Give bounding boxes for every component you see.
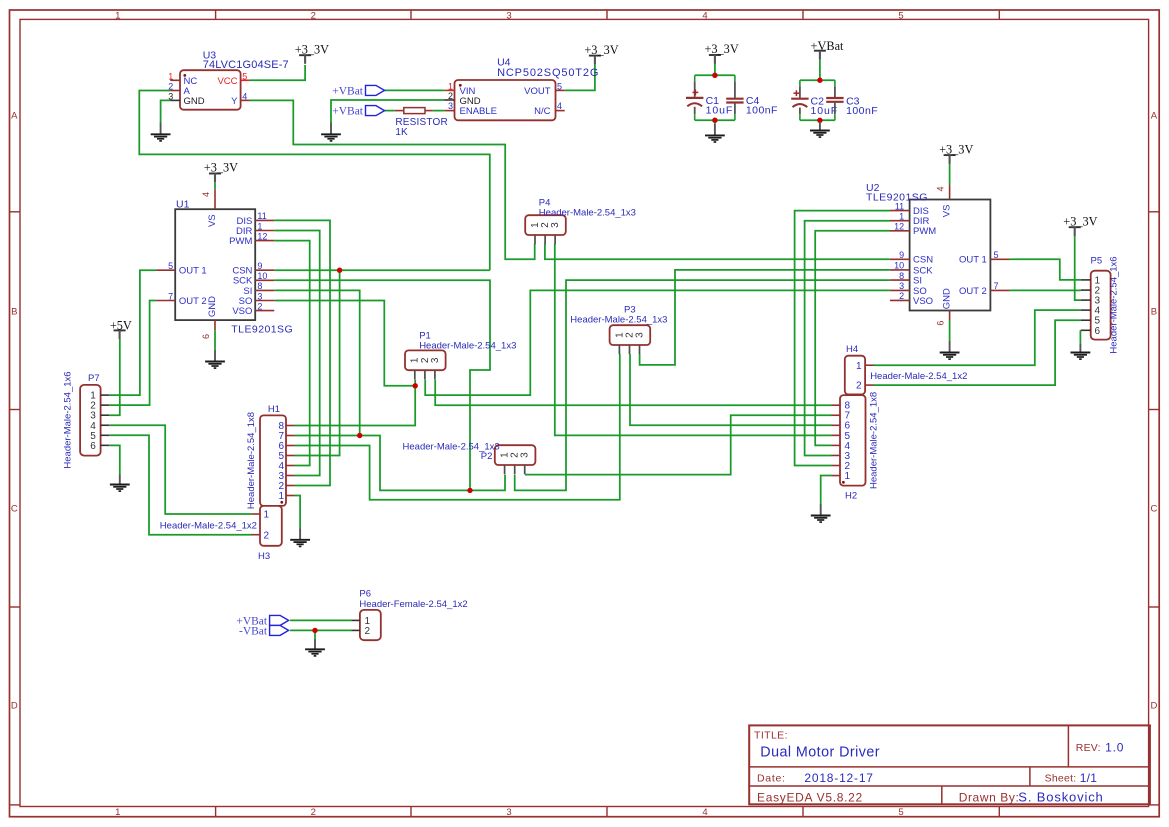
- svg-text:3: 3: [506, 807, 511, 818]
- H2 pin 7 stub and number: [832, 414, 841, 416]
- svg-text:3: 3: [257, 291, 262, 301]
- svg-text:6: 6: [201, 334, 211, 339]
- svg-text:2: 2: [856, 381, 862, 392]
- svg-text:Sheet:: Sheet:: [1045, 773, 1077, 785]
- wire U1.VS supply: [214, 182, 216, 189]
- U1 pin 11 (DIS) stub: [255, 219, 274, 221]
- svg-text:VSO: VSO: [913, 296, 933, 307]
- svg-text:1: 1: [899, 212, 904, 222]
- wire U1.SO to P1 pin1: [274, 301, 415, 386]
- H2 pin 4 stub and number: [832, 444, 841, 446]
- svg-text:12: 12: [894, 222, 904, 232]
- header P4 body: [525, 215, 566, 235]
- wire +VBat flag to P6 pin1: [290, 619, 351, 621]
- wire H1 pin8 to P1 pin1: [295, 380, 416, 426]
- wire P1 pin3 to H2 pin8: [435, 380, 831, 406]
- svg-text:S. Boskovich: S. Boskovich: [1018, 790, 1103, 805]
- svg-text:Header-Male-2.54_1x6: Header-Male-2.54_1x6: [62, 371, 73, 468]
- svg-text:4: 4: [201, 192, 211, 197]
- wire C2/C3 rails: [800, 79, 835, 81]
- wire U2.OUT2 to P5 pin2: [1010, 289, 1081, 291]
- svg-text:10: 10: [257, 271, 267, 281]
- power +VBat at C2: [811, 39, 844, 59]
- P5 pin 2 stub and number: [1081, 289, 1091, 291]
- title block: [749, 725, 1150, 804]
- svg-text:C: C: [1150, 504, 1157, 515]
- U2 pin 5 (OUT 1) stub: [990, 258, 1009, 260]
- svg-text:3: 3: [448, 101, 453, 111]
- svg-text:5: 5: [994, 250, 999, 260]
- header P3 Header-Male-2.54_1x3: [610, 325, 651, 354]
- H1 pin 7 stub and number: [286, 435, 295, 437]
- svg-text:1: 1: [257, 221, 262, 231]
- wire U1.OUT1 to P7 pin1: [109, 270, 156, 395]
- svg-text:6: 6: [90, 441, 96, 452]
- ground at U3 pin3: [151, 123, 171, 141]
- svg-text:4: 4: [702, 11, 707, 22]
- svg-text:+VBat: +VBat: [332, 106, 364, 118]
- wire U1.OUT2 to P7 pin2: [109, 301, 156, 406]
- P4 pin 2 stub and number: [544, 235, 546, 244]
- header P2 body: [495, 445, 536, 465]
- H1 pin 1 stub and number: [286, 495, 295, 497]
- svg-text:+3_3V: +3_3V: [584, 43, 618, 57]
- svg-text:GND: GND: [184, 96, 205, 107]
- svg-text:Header-Male-2.54_1x3: Header-Male-2.54_1x3: [419, 341, 516, 352]
- svg-text:Date:: Date:: [757, 773, 786, 785]
- svg-text:OUT 1: OUT 1: [179, 266, 207, 277]
- svg-text:Header-Male-2.54_1x8: Header-Male-2.54_1x8: [869, 392, 880, 489]
- svg-text:Header-Male-2.54_1x3: Header-Male-2.54_1x3: [539, 207, 636, 218]
- svg-text:PWM: PWM: [913, 226, 936, 237]
- svg-text:4: 4: [702, 807, 707, 818]
- svg-text:10uF: 10uF: [706, 105, 734, 117]
- junction dot SI / H1 pin7: [357, 433, 362, 438]
- wire U3.VCC to +3_3V: [250, 65, 306, 80]
- H1 pin 5 stub and number: [286, 455, 295, 457]
- wire +3_3V to P5 pin3: [1075, 235, 1081, 300]
- U2 pin 10 (SCK) stub: [890, 269, 910, 271]
- header H1 Header-Male-2.54_1x8: [246, 404, 295, 509]
- H2 pin 2 stub and number: [832, 465, 841, 467]
- header H3 Header-Male-2.54_1x2: [160, 506, 282, 562]
- svg-text:VSO: VSO: [232, 306, 252, 317]
- ground at U4.GND: [321, 123, 341, 141]
- header P3 body: [610, 325, 651, 345]
- svg-text:2: 2: [264, 530, 270, 541]
- P2 pin 3 stub and number: [524, 465, 526, 474]
- wire P5 pin5 to H4 pin2: [874, 320, 1081, 385]
- P3 pin 1 stub and number: [618, 345, 620, 354]
- H1 pin 4 stub and number: [286, 465, 295, 467]
- H2 pin 1 stub and number: [832, 475, 841, 477]
- H2 pin 5 stub and number: [832, 434, 841, 436]
- wire P6 pin2 branch to ground: [314, 630, 316, 639]
- wire H1 pin1 to ground: [295, 496, 301, 529]
- capacitor C3 100nF: [826, 80, 878, 120]
- svg-text:74LVC1G04SE-7: 74LVC1G04SE-7: [203, 59, 289, 71]
- P7 pin 1 stub and number: [101, 394, 110, 396]
- ground at P5 pin6: [1071, 344, 1091, 359]
- U2 pin 12 (PWM) stub: [890, 230, 910, 232]
- svg-text:7: 7: [168, 291, 173, 301]
- U1 pin 2 (VSO) stub: [255, 310, 274, 312]
- power +3_3V at P5 pin3: [1063, 214, 1097, 235]
- svg-text:1: 1: [264, 510, 270, 521]
- junction dots C2 rail: [817, 78, 822, 83]
- wire U1.SI to H1 pin7: [274, 290, 359, 435]
- header P1 Header-Male-2.54_1x3: [405, 350, 446, 379]
- inverter U3 74LVC1G04SE-7: [168, 50, 289, 110]
- U1 pin 5 (OUT 1) stub: [156, 269, 175, 271]
- header P6 Header-Female-2.54_1x2: [351, 589, 467, 641]
- header P5 Header-Male-2.54_1x6: [1081, 256, 1120, 354]
- wire P7 pin4 to H3 pin1: [109, 425, 251, 514]
- svg-text:1: 1: [115, 807, 120, 818]
- wire P7 pin6 to ground: [109, 445, 120, 474]
- junction dot CSN branch: [337, 268, 342, 273]
- svg-text:+5V: +5V: [110, 319, 132, 333]
- capacitor C4 100nF: [726, 75, 778, 120]
- capacitor C1 10uF: [686, 75, 733, 120]
- svg-text:B: B: [1151, 307, 1157, 318]
- header P1 body: [405, 350, 446, 370]
- svg-text:OUT 2: OUT 2: [959, 286, 987, 297]
- svg-text:Header-Male-2.54_1x8: Header-Male-2.54_1x8: [246, 412, 257, 509]
- svg-text:9: 9: [899, 250, 904, 260]
- wire U2.VS supply: [949, 163, 951, 185]
- svg-text:100nF: 100nF: [746, 105, 778, 117]
- svg-text:10: 10: [894, 261, 904, 271]
- wire U3.Y to P4 pin1: [250, 100, 535, 259]
- svg-text:5: 5: [898, 11, 903, 22]
- P7 pin 4 stub and number: [101, 424, 110, 426]
- svg-text:OUT 2: OUT 2: [179, 296, 207, 307]
- header P2 Header-Male-2.54_1x3: [495, 445, 536, 474]
- junction dot P1 pin1: [413, 383, 418, 388]
- U1 pin 1 (DIR) stub: [255, 230, 274, 232]
- svg-text:+3_3V: +3_3V: [295, 42, 329, 56]
- svg-text:GND: GND: [942, 288, 953, 309]
- P5 pin 3 stub and number: [1081, 299, 1091, 301]
- svg-text:3: 3: [520, 452, 531, 458]
- svg-text:2: 2: [899, 291, 904, 301]
- U2 pin 2 (VSO) stub: [890, 299, 910, 301]
- header H4 Header-Male-2.54_1x2: [845, 344, 968, 395]
- svg-text:Header-Male-2.54_1x2: Header-Male-2.54_1x2: [160, 521, 257, 532]
- svg-text:A: A: [1151, 111, 1158, 122]
- wire U1.SCK: [274, 280, 490, 490]
- svg-text:+VBat: +VBat: [332, 85, 364, 97]
- svg-text:2: 2: [311, 11, 316, 22]
- wire C1/C4 rails: [695, 74, 735, 76]
- svg-text:D: D: [1150, 701, 1157, 712]
- H1 pin 8 stub and number: [286, 425, 295, 427]
- svg-text:4: 4: [936, 186, 946, 191]
- svg-text:100nF: 100nF: [846, 105, 878, 117]
- svg-text:8: 8: [899, 271, 904, 281]
- wire P2 pin2 to U2.SI: [515, 280, 890, 490]
- svg-text:Header-Female-2.54_1x2: Header-Female-2.54_1x2: [359, 599, 467, 610]
- svg-text:Y: Y: [231, 96, 238, 107]
- svg-text:9: 9: [257, 261, 262, 271]
- svg-text:5: 5: [168, 261, 173, 271]
- svg-text:P7: P7: [88, 373, 100, 384]
- H1 pin 2 stub and number: [286, 485, 295, 487]
- ground at C2: [810, 122, 830, 138]
- svg-text:2018-12-17: 2018-12-17: [804, 771, 873, 785]
- svg-text:+3_3V: +3_3V: [704, 42, 738, 56]
- junction dots C1 rail: [712, 73, 717, 78]
- svg-text:11: 11: [257, 211, 266, 221]
- ground at C1: [705, 124, 725, 142]
- ground at H1 pin1: [290, 529, 310, 547]
- U2 pin 8 (SI) stub: [890, 279, 910, 281]
- P1 pin 1 stub and number: [414, 370, 416, 379]
- wire +VBat flag to U4.VIN: [385, 89, 445, 91]
- svg-text:REV:: REV:: [1076, 742, 1101, 754]
- wire U4.GND to ground: [331, 100, 444, 123]
- svg-text:2: 2: [448, 91, 453, 101]
- svg-text:7: 7: [994, 281, 999, 291]
- wire P5 pin4 to H4 pin1: [874, 310, 1081, 365]
- wire P5 pin6 to ground: [1079, 330, 1081, 344]
- svg-text:3: 3: [634, 332, 645, 338]
- svg-text:2: 2: [257, 301, 262, 311]
- svg-text:ENABLE: ENABLE: [460, 106, 498, 117]
- header H2 Header-Male-2.54_1x8: [832, 392, 880, 502]
- svg-text:2: 2: [311, 807, 316, 818]
- svg-text:PWM: PWM: [229, 236, 252, 247]
- wire U3 pin3 to ground: [161, 100, 171, 122]
- junction dot P6 ground: [312, 628, 317, 633]
- svg-text:TITLE:: TITLE:: [754, 729, 788, 741]
- svg-text:3: 3: [550, 222, 561, 228]
- wire P3 pin3 to U2.SCK: [640, 270, 890, 365]
- P5 pin 1 stub and number: [1081, 279, 1091, 281]
- U1 pin 8 (SI) stub: [255, 289, 274, 291]
- svg-text:C: C: [11, 504, 18, 515]
- header P4 Header-Male-2.54_1x3: [525, 215, 566, 244]
- P1 pin 3 stub and number: [434, 370, 436, 379]
- svg-text:2: 2: [365, 626, 371, 637]
- P3 pin 3 stub and number: [639, 345, 641, 354]
- svg-text:CSN: CSN: [913, 255, 933, 266]
- wire CSN branch to H1 pin5: [295, 270, 340, 455]
- U2 pin 11 (DIS) stub: [890, 210, 910, 212]
- wire flag to resistor: [385, 110, 395, 112]
- svg-text:H4: H4: [846, 344, 858, 355]
- svg-text:1: 1: [448, 81, 453, 91]
- wire U2.GND to ground: [949, 321, 951, 341]
- svg-text:1.0: 1.0: [1105, 741, 1124, 755]
- svg-text:N/C: N/C: [534, 106, 551, 117]
- svg-text:+3_3V: +3_3V: [939, 142, 973, 156]
- svg-text:6: 6: [1095, 326, 1101, 337]
- svg-text:3: 3: [506, 11, 511, 22]
- svg-text:Header-Male-2.54_1x3: Header-Male-2.54_1x3: [570, 315, 667, 326]
- svg-text:-VBat: -VBat: [239, 625, 268, 637]
- svg-text:Header-Male-2.54_1x3: Header-Male-2.54_1x3: [403, 442, 500, 453]
- P2 pin 1 stub and number: [504, 465, 506, 474]
- svg-text:U1: U1: [176, 199, 190, 211]
- ground at P7 pin6: [110, 475, 130, 492]
- wire U2.OUT1 to P5 pin1: [1010, 259, 1081, 280]
- wire U3.A to U1.CSN net: [139, 91, 490, 271]
- svg-text:5: 5: [898, 807, 903, 818]
- P3 pin 2 stub and number: [629, 345, 631, 354]
- wire U1.DIR to H1 pin3: [274, 231, 319, 476]
- U2 pin 9 (CSN) stub: [890, 258, 910, 260]
- svg-text:B: B: [11, 307, 17, 318]
- resistor R 1K: [395, 108, 448, 138]
- wire U2.PWM to H2 pin4: [815, 231, 890, 446]
- U2 pin 1 (DIR) stub: [890, 220, 910, 222]
- U2 pin 7 (OUT 2) stub: [990, 289, 1009, 291]
- svg-text:8: 8: [257, 281, 262, 291]
- junction dot SCK / P2 line: [467, 488, 472, 493]
- svg-text:VS: VS: [207, 214, 218, 227]
- svg-text:EasyEDA V5.8.22: EasyEDA V5.8.22: [757, 791, 863, 805]
- wire U4.VOUT to +3_3V: [565, 63, 595, 90]
- wire U1.GND to ground: [214, 330, 216, 350]
- driver U1 TLE9201SG: [156, 189, 293, 339]
- svg-text:VCC: VCC: [217, 76, 237, 87]
- P7 pin 5 stub and number: [101, 434, 110, 436]
- svg-text:12: 12: [257, 231, 267, 241]
- svg-text:2: 2: [168, 82, 173, 92]
- svg-text:VS: VS: [942, 205, 953, 218]
- ground at U1.GND: [205, 350, 225, 368]
- wire H1 pin6 to P3 pin1: [295, 354, 620, 500]
- capacitor C2 10uF: [791, 80, 838, 120]
- svg-text:P5: P5: [1091, 256, 1103, 267]
- wire U1.DIS to H1 pin2: [274, 220, 330, 485]
- net flag -VBat at P6: [239, 625, 289, 637]
- wire P7 pin5 to H3 pin2: [109, 435, 251, 534]
- svg-text:Dual Motor Driver: Dual Motor Driver: [760, 744, 880, 760]
- U1 pin 7 (OUT 2) stub: [156, 300, 175, 302]
- svg-text:6: 6: [936, 321, 946, 326]
- net flag +VBat at P6: [236, 615, 288, 627]
- svg-text:P2: P2: [481, 451, 493, 462]
- ground at P6: [305, 640, 325, 656]
- net flag +VBat to resistor: [332, 106, 384, 118]
- ground at U2.GND: [940, 341, 960, 359]
- power +3_3V at U1.VS: [204, 161, 238, 182]
- driver U2 TLE9201SG: [866, 182, 1010, 326]
- P4 pin 1 stub and number: [534, 235, 536, 244]
- svg-text:4: 4: [242, 91, 247, 101]
- svg-text:Drawn By:: Drawn By:: [959, 791, 1020, 805]
- header P7 Header-Male-2.54_1x6: [62, 371, 109, 468]
- svg-text:4: 4: [557, 101, 562, 111]
- wire U2.DIS to H2 pin2: [795, 211, 890, 466]
- wire P4 pin3 to H2 pin5: [555, 244, 832, 436]
- wire -VBat flag to P6 pin2: [290, 629, 351, 631]
- svg-text:NCP502SQ50T2G: NCP502SQ50T2G: [497, 67, 599, 79]
- ground at H2 pin1: [811, 504, 831, 522]
- P7 pin 3 stub and number: [101, 414, 110, 416]
- wire P3 pin2 to H2 pin6: [630, 354, 832, 425]
- P7 pin 6 stub and number: [101, 444, 110, 446]
- H2 pin 8 stub and number: [832, 404, 841, 406]
- svg-text:1: 1: [115, 11, 120, 22]
- power +3_3V at C1: [704, 42, 738, 63]
- U1 pin 3 (SO) stub: [255, 300, 274, 302]
- svg-text:GND: GND: [207, 296, 218, 317]
- U1 pin 10 (SCK) stub: [255, 279, 274, 281]
- svg-text:D: D: [11, 701, 18, 712]
- U2 pin 3 (SO) stub: [890, 289, 910, 291]
- regulator U4 NCP502SQ50T2G: [444, 56, 599, 120]
- svg-text:10uF: 10uF: [811, 105, 839, 117]
- svg-text:3: 3: [899, 281, 904, 291]
- power +3_3V at U3.VCC: [295, 42, 329, 63]
- svg-text:H3: H3: [258, 551, 270, 562]
- wire P1 pin2 to U2.SO: [425, 290, 890, 395]
- svg-text:5: 5: [557, 81, 562, 91]
- P5 pin 6 stub and number: [1081, 329, 1091, 331]
- P4 pin 3 stub and number: [554, 235, 556, 244]
- wire resistor to U4.ENABLE: [433, 110, 445, 112]
- svg-text:+VBat: +VBat: [811, 39, 844, 53]
- svg-text:1: 1: [168, 71, 173, 81]
- P5 pin 5 stub and number: [1081, 319, 1091, 321]
- P1 pin 2 stub and number: [424, 370, 426, 379]
- svg-text:3: 3: [168, 91, 173, 101]
- wire U1.PWM to H1 pin4: [274, 241, 309, 466]
- svg-text:1: 1: [856, 361, 862, 372]
- svg-text:+3_3V: +3_3V: [1063, 214, 1097, 228]
- svg-text:Header-Male-2.54_1x2: Header-Male-2.54_1x2: [870, 371, 967, 382]
- net flag +VBat to U4.VIN: [332, 85, 384, 97]
- U1 pin 9 (CSN) stub: [255, 269, 274, 271]
- P5 pin 4 stub and number: [1081, 309, 1091, 311]
- wire U2.DIR to H2 pin3: [805, 221, 890, 456]
- svg-text:3: 3: [430, 357, 441, 363]
- P7 pin 2 stub and number: [101, 404, 110, 406]
- H1 pin 6 stub and number: [286, 445, 295, 447]
- wire H1 pin7 to P2 pin1: [295, 436, 506, 491]
- svg-text:+3_3V: +3_3V: [204, 161, 238, 175]
- H2 pin 3 stub and number: [832, 454, 841, 456]
- svg-text:Header-Male-2.54_1x6: Header-Male-2.54_1x6: [1109, 256, 1120, 353]
- svg-text:TLE9201SG: TLE9201SG: [231, 324, 293, 336]
- svg-text:VOUT: VOUT: [524, 86, 551, 97]
- svg-text:H2: H2: [845, 491, 857, 502]
- H2 pin 6 stub and number: [832, 424, 841, 426]
- wire U1.CSN: [274, 269, 490, 271]
- power +5V at P7 pin3: [110, 319, 132, 339]
- svg-text:1/1: 1/1: [1080, 771, 1098, 785]
- power +3_3V at U4.VOUT: [584, 43, 618, 64]
- wire +5V to P7 pin3: [109, 339, 120, 415]
- svg-text:H1: H1: [268, 404, 280, 415]
- U1 pin 12 (PWM) stub: [255, 240, 274, 242]
- svg-text:A: A: [11, 111, 18, 122]
- H1 pin 3 stub and number: [286, 475, 295, 477]
- svg-text:11: 11: [895, 201, 904, 211]
- svg-text:1: 1: [845, 471, 851, 482]
- svg-text:OUT 1: OUT 1: [959, 255, 987, 266]
- svg-text:1: 1: [278, 491, 284, 502]
- wire P2 pin3 to H2 pin7: [525, 415, 832, 474]
- svg-text:1K: 1K: [395, 127, 408, 138]
- wire P4 pin2 to U2.CSN: [545, 244, 890, 259]
- wire H2 pin1 to ground: [821, 476, 832, 504]
- power +3_3V at U2.VS: [939, 142, 973, 163]
